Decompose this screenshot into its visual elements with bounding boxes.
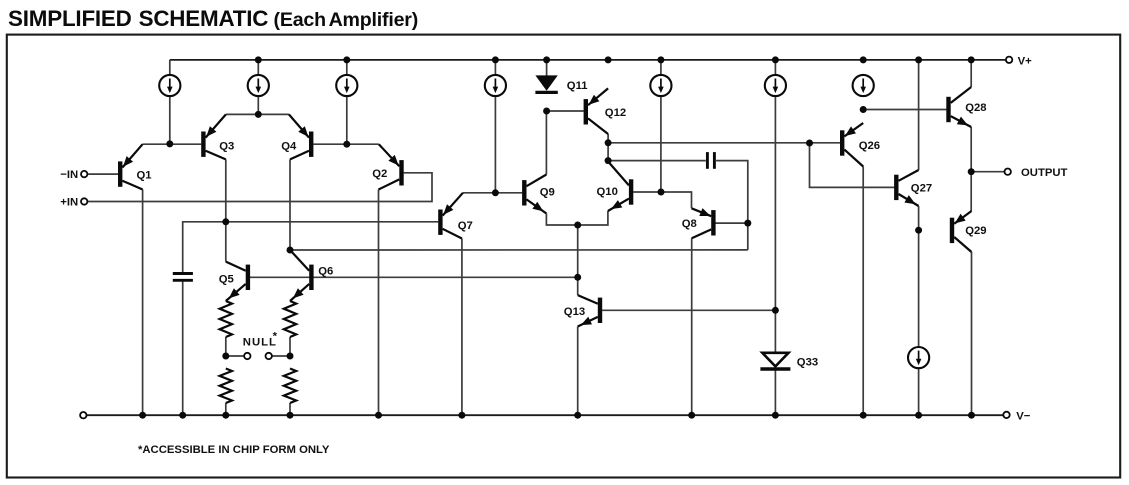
transistor Q29 (952, 211, 987, 252)
transistor Q1 (120, 144, 151, 189)
wire C1 top to Q7 base (183, 222, 439, 272)
svg-text:OUTPUT: OUTPUT (1021, 167, 1068, 179)
node n10 (574, 274, 581, 281)
transistor Q12 (586, 88, 626, 134)
node n12 (287, 247, 294, 254)
terminal V- left (80, 412, 86, 418)
wire Q10 base to Q8 (633, 192, 691, 208)
wire Q28 collector riser (970, 60, 972, 87)
wire output node vertical (970, 127, 972, 211)
svg-text:Q7: Q7 (458, 220, 473, 232)
node n1 (166, 140, 173, 147)
svg-text:Q3: Q3 (219, 141, 234, 153)
wire Q7 emitter drop (461, 239, 463, 416)
wire Q26 collector drop (862, 167, 864, 416)
svg-text:Q26: Q26 (859, 140, 880, 152)
wire Q13 base to Q33 (602, 309, 775, 311)
wire Q12 collector drop (607, 134, 609, 162)
svg-text:SIMPLIFIEDSCHEMATIC(EachAmplif: SIMPLIFIEDSCHEMATIC(EachAmplifier) (8, 6, 418, 31)
wire current source I8 drop (918, 230, 920, 415)
wire Q9 collector riser (545, 111, 547, 175)
terminal V+ (1006, 57, 1012, 63)
wire R3 to rail (225, 403, 227, 415)
wire Q27 emitter to Q29 base node (918, 206, 920, 230)
node n6 (605, 139, 612, 146)
terminal V- (1003, 412, 1009, 418)
transistor Q3 (203, 114, 234, 159)
diode Q11 (535, 60, 587, 93)
node n9 (574, 222, 581, 229)
terminal OUTPUT (1005, 169, 1011, 175)
node n17 (915, 227, 922, 234)
capacitor C2 (707, 152, 714, 169)
svg-text:V+: V+ (1018, 55, 1033, 67)
transistor Q9 (524, 175, 554, 214)
svg-text:Q13: Q13 (564, 306, 585, 318)
current source I2 (248, 75, 269, 96)
current source I8 (908, 347, 929, 368)
transistor Q5 (219, 262, 248, 301)
wire V+ top rail (170, 59, 1006, 61)
wire Q27 collector riser (918, 60, 920, 170)
transistor Q27 (896, 170, 932, 206)
node n8 (658, 189, 665, 196)
node n14 (772, 307, 779, 314)
wire Q7 collector to Q9 base (463, 192, 522, 194)
svg-text:Q27: Q27 (911, 182, 932, 194)
wire Q3 Q4 emitter bus (226, 113, 289, 115)
svg-text:Q1: Q1 (137, 169, 152, 181)
svg-text:Q8: Q8 (682, 218, 697, 230)
wire Q11 cathode to Q12 base (547, 110, 584, 112)
wire Q12 collector to C2 (608, 160, 706, 162)
transistor Q13 (564, 295, 600, 326)
svg-text:Q29: Q29 (965, 225, 986, 237)
transistor Q2 (372, 144, 401, 189)
wire output lead (971, 171, 1004, 173)
node n11 (222, 218, 229, 225)
wire V- bottom rail (87, 414, 1004, 416)
node n15 (806, 140, 813, 147)
transistor Q6 (290, 250, 333, 301)
svg-text:Q11: Q11 (567, 80, 588, 92)
svg-text:Q2: Q2 (372, 168, 387, 180)
wire Q4 base to Q2 (313, 143, 379, 145)
transistor Q8 (682, 208, 714, 238)
node n18 (968, 168, 975, 175)
wire R2 to null node (289, 337, 291, 356)
wire Q8 base lead (716, 222, 748, 224)
wire Q3 collector drop (225, 159, 227, 261)
wire Q4 collector to Q8 emitter bus (290, 249, 748, 251)
node n5 (543, 108, 550, 115)
wire null left link (226, 355, 244, 357)
svg-text:Q33: Q33 (797, 357, 818, 369)
diode Q33 (760, 353, 818, 369)
node n3 (343, 141, 350, 148)
wire Q9 Q10 emitter U (546, 211, 608, 225)
current source I5 (650, 75, 671, 96)
wire emitter node to Q13 collector (577, 225, 579, 295)
node n20 (287, 353, 294, 360)
transistor Q7 (440, 193, 472, 239)
node n13 (744, 220, 751, 227)
wire Q4 collector drop (289, 159, 291, 250)
wire R4 to rail (289, 403, 291, 415)
svg-text:*: * (273, 331, 278, 343)
wire current source I2 drop (257, 60, 259, 115)
svg-text:*ACCESSIBLE IN CHIP FORM ONLY: *ACCESSIBLE IN CHIP FORM ONLY (138, 444, 330, 456)
resistor R3 (220, 369, 232, 404)
wire Q1 emitter drop (142, 190, 144, 416)
resistor R1 (220, 301, 232, 337)
transistor Q28 (949, 87, 987, 127)
current source I1 (159, 75, 180, 96)
wire current source I5 drop (660, 60, 662, 192)
wire C2 right lead (716, 161, 748, 250)
wire Q12 collector to Q26 base (608, 142, 840, 144)
wire -IN lead (87, 173, 118, 175)
wire Q29 collector drop (971, 252, 973, 415)
wire Q8 emitter drop (691, 238, 693, 415)
wire current source I1 drop (169, 60, 171, 144)
node n4 (492, 189, 499, 196)
wire current source I6 drop upper (774, 60, 776, 353)
wire +IN to Q2 base (87, 173, 432, 202)
transistor Q10 (597, 162, 632, 212)
wire Q1 collector to Q3 base (143, 143, 202, 145)
junction dots on V- rail (139, 412, 975, 419)
node n16 (860, 106, 867, 113)
svg-text:Q10: Q10 (597, 186, 618, 198)
wire C1 bottom drop (182, 281, 184, 415)
terminal NULL right (266, 353, 272, 359)
wire current source I6 drop lower (774, 370, 776, 415)
svg-text:Q5: Q5 (219, 274, 234, 286)
wire Q26 base branch to Q27 base (810, 143, 895, 187)
current source I7 (853, 75, 874, 96)
wire Q13 emitter drop (577, 327, 579, 416)
terminal NULL left (244, 353, 250, 359)
svg-text:Q6: Q6 (318, 265, 333, 277)
svg-text:Q9: Q9 (540, 187, 555, 199)
svg-text:Q28: Q28 (965, 102, 986, 114)
current source I4 (485, 75, 506, 96)
svg-text:−IN: −IN (60, 169, 78, 181)
transistor Q26 (842, 123, 880, 167)
svg-text:Q4: Q4 (281, 141, 297, 153)
capacitor C1 (173, 274, 193, 281)
wire null right link (272, 355, 290, 357)
resistor R2 (284, 301, 296, 337)
svg-text:+IN: +IN (60, 197, 78, 209)
svg-text:Q12: Q12 (605, 107, 626, 119)
wire Q5 Q6 base bus to Q13 (249, 276, 578, 278)
svg-text:V−: V− (1016, 411, 1031, 423)
node n2 (255, 111, 262, 118)
junction dots on V+ rail (255, 56, 975, 63)
terminal +IN (81, 198, 87, 204)
current source I6 (765, 75, 786, 96)
transistor Q4 (281, 114, 311, 159)
wire R1 to null node (225, 337, 227, 356)
wire current source I3 drop (346, 60, 348, 144)
node n19 (222, 353, 229, 360)
wire current source I4 drop (494, 60, 496, 193)
current source I3 (336, 75, 357, 96)
terminal -IN (81, 171, 87, 177)
wire Q2 collector drop (378, 190, 380, 416)
wire Q26 emitter node to Q28 base (863, 109, 946, 111)
node n7 (605, 157, 612, 164)
resistor R4 (284, 369, 296, 404)
